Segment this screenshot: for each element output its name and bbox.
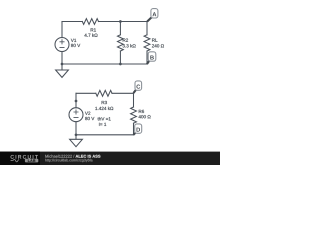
wire R6 top lead <box>133 93 135 107</box>
resistor R1 <box>82 19 98 25</box>
label R3 <box>102 101 107 104</box>
node D flag <box>134 124 142 135</box>
wire V1 top lead <box>61 22 63 38</box>
resistor RL <box>144 35 150 51</box>
label R1 <box>91 28 96 31</box>
voltage source V2 <box>69 108 83 122</box>
label RL <box>152 39 157 42</box>
footer attribution title <box>76 155 101 158</box>
label V2 <box>85 112 90 115</box>
wire RL bottom lead to node B corner <box>146 51 148 64</box>
junction: R2 bottom rail <box>119 63 122 66</box>
wire top rail: R3 to node C corner <box>112 92 134 94</box>
node A flag <box>147 9 158 22</box>
wire bottom rail (bottom circuit) <box>76 134 134 136</box>
wire V2 bottom lead <box>75 122 77 135</box>
footer logo CIRCUIT <box>11 155 38 159</box>
wire top rail: V2 corner to R3 <box>76 92 96 94</box>
wire V2 top lead <box>75 93 77 108</box>
footer logo LAB <box>28 159 35 161</box>
junction: V2-ground bottom rail <box>75 133 78 136</box>
resistor R2 <box>118 35 124 51</box>
value 80 V (V2) <box>85 117 94 120</box>
footer logo LAB box <box>25 159 38 163</box>
resistor R6 <box>131 107 137 123</box>
footer url <box>45 159 92 162</box>
value 240 Ω <box>152 44 164 47</box>
node B flag <box>147 52 156 64</box>
annotation thV =1 <box>98 117 111 120</box>
ground bottom circuit <box>70 135 83 147</box>
value 3.3 kΩ <box>123 44 136 47</box>
wire bottom rail (top circuit) <box>62 63 147 65</box>
V1 polarity marks <box>60 40 64 48</box>
label R2 <box>123 38 128 41</box>
footer logo wave <box>11 159 20 162</box>
value 80 V (V1) <box>71 44 80 47</box>
voltage source V1 <box>55 38 69 52</box>
annotation I= 1 <box>99 123 106 126</box>
wire RL top lead <box>146 22 148 35</box>
value 400 Ω <box>139 115 151 118</box>
resistor R3 <box>96 90 112 96</box>
value 1.424 kΩ <box>95 107 113 110</box>
footer bar <box>0 152 220 165</box>
wire R2 bottom lead <box>119 51 121 64</box>
wire top rail: V1 corner to R1 <box>62 21 82 23</box>
wire top rail: R1 to node A corner <box>99 21 148 23</box>
label R6 <box>139 110 144 113</box>
wire V1 bottom lead <box>61 52 63 65</box>
label V1 <box>71 39 76 42</box>
ground top circuit <box>56 64 69 77</box>
footer attribution user <box>45 155 74 158</box>
junction on V2 top wire <box>75 100 78 103</box>
node C flag <box>134 81 142 93</box>
wire R2 top lead <box>119 22 121 35</box>
value 4.7 kΩ <box>84 33 97 36</box>
V2 polarity marks <box>74 110 78 118</box>
wire R6 bottom lead to node D corner <box>133 123 135 135</box>
junction: V1-ground bottom rail <box>61 63 64 66</box>
junction: R1-R2 top rail <box>119 20 122 23</box>
